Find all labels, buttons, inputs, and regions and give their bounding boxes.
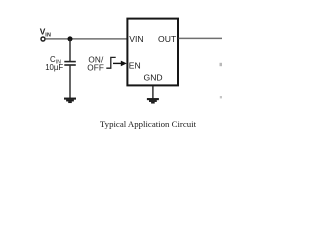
cropped fragment right edge (C_OUT label remnant) bbox=[220, 63, 223, 66]
cropped fragment right edge lower bbox=[220, 96, 222, 98]
svg-text:EN: EN bbox=[129, 60, 141, 70]
svg-text:10µF: 10µF bbox=[45, 63, 63, 72]
wire capacitor bottom to ground bbox=[69, 66, 71, 99]
ground (below C_IN) bbox=[64, 99, 76, 103]
node VIN label bbox=[40, 27, 51, 39]
capacitor C_IN bbox=[64, 62, 76, 65]
arrow into EN pin bbox=[113, 61, 127, 67]
terminal VIN (open circle) bbox=[41, 37, 45, 41]
wire VIN terminal to IC VIN pin bbox=[45, 38, 127, 40]
svg-text:GND: GND bbox=[144, 73, 163, 83]
rising-edge symbol at EN bbox=[106, 57, 115, 68]
ground (below GND pin) bbox=[147, 99, 159, 103]
svg-text:OFF: OFF bbox=[87, 64, 104, 73]
svg-text:VIN: VIN bbox=[129, 34, 143, 44]
svg-text:Typical Application Circuit: Typical Application Circuit bbox=[100, 119, 197, 129]
wire node to capacitor top bbox=[69, 39, 71, 61]
wire GND pin down bbox=[152, 86, 154, 99]
label ON/OFF bbox=[87, 56, 104, 73]
label C_IN value bbox=[45, 55, 63, 72]
IC U1 regulator box bbox=[127, 19, 178, 86]
svg-text:OUT: OUT bbox=[158, 34, 177, 44]
wire OUT pin to right edge bbox=[179, 37, 222, 39]
junction dot input node bbox=[68, 36, 73, 41]
